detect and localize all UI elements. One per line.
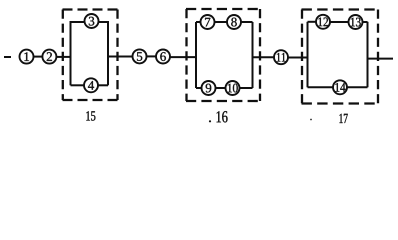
node 8 — [227, 15, 241, 29]
wire node14 to bar — [347, 86, 368, 88]
wire node13 to bar — [363, 21, 368, 23]
wire 5-6 — [147, 55, 157, 57]
wire box15 to node 5 — [108, 56, 133, 58]
node 5 — [133, 49, 147, 63]
node 1 — [20, 50, 34, 64]
wire to node 4 — [71, 84, 85, 86]
junction bar left of box15 — [70, 21, 72, 85]
node 7 numeral — [205, 18, 210, 27]
node 2 — [42, 50, 56, 64]
node 4 — [84, 78, 98, 92]
junction bar left of box16 — [195, 22, 197, 88]
wire to node 3 — [71, 21, 85, 23]
node 6 numeral — [160, 52, 166, 61]
node 3 — [85, 14, 99, 28]
node 14 numeral — [335, 83, 345, 92]
speck before label 16 — [209, 120, 211, 122]
node 9 numeral — [206, 84, 212, 93]
wire to node 14 — [308, 86, 334, 88]
wire node10 to bar — [240, 87, 253, 89]
node 2 numeral — [47, 52, 52, 61]
wire 6 to box16 — [170, 56, 196, 58]
wire node3 to bar — [99, 21, 109, 23]
wire 1-2 — [34, 56, 43, 58]
node 9 — [202, 81, 216, 95]
node 13 — [349, 15, 363, 29]
wire lead-in dash — [4, 56, 11, 58]
wire to node 12 — [308, 21, 317, 23]
wire 11 to box17 — [288, 57, 308, 59]
label 15 — [86, 111, 95, 120]
node 11 — [274, 50, 288, 64]
label 17 — [339, 114, 347, 123]
junction bar right of box15 — [107, 21, 109, 85]
wire 2 to box15 — [57, 56, 71, 58]
node 10 numeral — [228, 84, 238, 93]
wire node8 to bar — [241, 21, 253, 23]
node 1 numeral — [24, 52, 29, 61]
junction bar right of box17 — [367, 22, 369, 88]
speck before label 17 — [310, 119, 312, 121]
node 8 numeral — [231, 18, 237, 27]
node 7 — [201, 15, 215, 29]
node 6 — [156, 50, 170, 64]
wire 12-13 — [330, 21, 349, 23]
label 16 — [217, 111, 228, 122]
wire to node 7 — [196, 21, 201, 23]
wire box16 to node 11 — [253, 56, 274, 58]
node 13 numeral — [351, 18, 361, 27]
node 14 — [333, 80, 347, 94]
junction bar right of box16 — [252, 22, 254, 88]
wire 9-10 — [216, 87, 226, 89]
wire to node 9 — [196, 87, 202, 89]
wire exit right — [368, 58, 394, 60]
node 3 numeral — [89, 17, 94, 26]
wire 7-8 — [215, 21, 228, 23]
junction bar left of box17 — [307, 22, 309, 88]
node 4 numeral — [88, 81, 94, 90]
node 12 — [316, 15, 330, 29]
subsystem box 15 (dashed) — [63, 10, 118, 101]
node 5 numeral — [137, 52, 142, 61]
subsystem box 16 (dashed) — [186, 9, 260, 101]
node 12 numeral — [318, 17, 328, 26]
node 11 numeral — [277, 53, 286, 62]
subsystem box 17 (dashed) — [302, 10, 379, 104]
wire node4 to bar — [98, 84, 108, 86]
node 10 — [226, 81, 240, 95]
